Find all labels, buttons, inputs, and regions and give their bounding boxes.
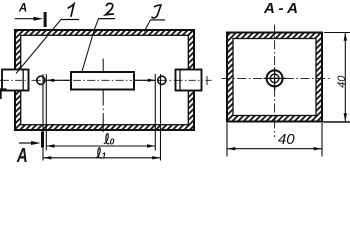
section vertical centerline [274,25,276,138]
label 3 shelf [151,19,166,21]
label 2 [106,3,114,14]
section cut mark bottom: thick bar [41,132,44,148]
centerline end tick [206,76,208,85]
centerline through right plug [176,79,203,81]
svg-text:0: 0 [110,136,115,146]
right plug flange line [179,70,181,91]
tube case outer outline [15,30,194,130]
section view walls hatched [227,33,322,122]
section horizontal centerline [222,77,331,79]
label l0 script ell [104,134,110,144]
centerline through left plug [2,79,29,81]
label l1 script ell [96,148,102,158]
extension line l1 left [42,74,44,161]
label 1 leader [16,20,61,74]
edge artifact mark [0,88,7,99]
section crosshair horizontal [264,77,287,79]
dim 40 right: dimension line [344,33,346,122]
section inner outline [233,39,316,116]
tube case inner outline [21,35,189,124]
svg-text:A - A: A - A [263,0,298,17]
section outer outline [227,33,322,122]
extension line l1 right [160,74,162,161]
dim 40 bottom: extension lines [226,123,228,157]
label 2 leader [82,19,99,72]
left lead wire [47,79,71,81]
label 2 shelf [99,18,115,20]
section cut arrow top [15,18,36,20]
right lead arrowhead [148,79,156,82]
left plug flange line [22,70,24,91]
right insulator bead [158,76,166,84]
vertical centerline of element 2 [102,59,104,133]
label 1 shelf [61,19,79,21]
element 2 body [71,72,134,90]
extension line l0 left [45,74,47,151]
section cut arrow bottom [19,142,34,144]
svg-text:40: 40 [336,75,348,88]
dimension line l0 [46,145,155,147]
label 1 [68,4,74,17]
svg-text:A: A [16,144,28,167]
section cut mark top: thick bar [44,12,47,27]
main horizontal centerline [0,79,212,81]
right lead wire [134,79,155,81]
tube case walls (item 3) hatched section [15,30,194,130]
element cross-section inner circle [270,74,279,83]
left insulator bead [37,76,45,84]
dimension line l1 [43,157,161,159]
label 3 leader [144,20,150,32]
left lead arrowhead [47,79,55,82]
extension line l0 right [154,74,156,151]
label 3 [151,5,161,18]
svg-text:A: A [18,3,27,15]
svg-text:1: 1 [102,150,107,160]
svg-text:40: 40 [278,131,295,148]
dim 40 right: extension lines [324,32,350,34]
right plug [176,70,202,91]
section crosshair vertical [274,68,276,91]
centerline through element 2 [73,79,132,81]
left plug (item 1) [2,70,29,91]
element cross-section outer circle [267,70,283,86]
dim 40 bottom: dimension line [227,148,322,150]
